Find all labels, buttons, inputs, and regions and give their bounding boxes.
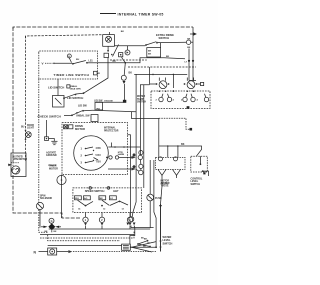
wire: diagonal to wash light box: [113, 45, 119, 57]
junction: black diamond with arrows: [41, 223, 61, 232]
svg-text:SOLENOID: SOLENOID: [40, 198, 52, 200]
svg-text:4 BK: 4 BK: [96, 147, 102, 150]
wire: outer border right (x=193 down to valve): [192, 27, 194, 81]
wires: fan from plug to water level switch: [132, 239, 157, 253]
svg-text:TIMER LINE SWITCH: TIMER LINE SWITCH: [54, 73, 90, 77]
node: boxed M top: [104, 53, 109, 57]
wire: x130 vertical: [128, 135, 131, 217]
valve solenoid 4: [191, 90, 195, 101]
wire: outer border left down to pump: [12, 27, 14, 166]
svg-text:WH: WH: [75, 198, 79, 200]
svg-text:SWITCH: SWITCH: [159, 36, 170, 40]
wash light box: [103, 31, 125, 52]
motor dashed box: [62, 123, 128, 175]
speed switch contacts group 1: [75, 196, 94, 211]
wire: water level right vertical: [155, 204, 161, 252]
svg-text:SPIN: SPIN: [40, 196, 46, 198]
svg-text:INTERNAL TIMER SW-05: INTERNAL TIMER SW-05: [118, 12, 164, 16]
connector row y157: circles and arrow: [106, 155, 143, 159]
svg-text:V: V: [42, 62, 44, 66]
wire: console border B2 left: [25, 36, 27, 162]
wire: diagonal from square to junction: [122, 57, 126, 63]
node: line feed arrow: [190, 33, 196, 35]
wire: bottom bus y234.5: [40, 234, 134, 236]
svg-text:18GA GRN: 18GA GRN: [70, 87, 82, 90]
node: boxed H S terminals: [64, 125, 68, 129]
svg-text:WATER: WATER: [137, 95, 145, 98]
svg-text:LID SWITCH: LID SWITCH: [67, 96, 83, 100]
wire: diagonal from lid switch up to boxed M: [84, 58, 108, 93]
wire: console border B2 top: [26, 35, 103, 38]
wire: vertical BK drop from indicator: [188, 49, 190, 81]
svg-text:MOTOR: MOTOR: [49, 167, 58, 170]
pressure switch contacts: [137, 238, 151, 249]
water valve dashed box: [151, 91, 210, 109]
svg-text:A: A: [68, 54, 70, 58]
wire: right column drop x140: [140, 85, 149, 155]
svg-text:UNBAL SW: UNBAL SW: [76, 114, 90, 117]
node: connector circle on drop wire: [121, 63, 126, 100]
lamp: door light: [25, 130, 32, 141]
wire: feed bus y146 to temp switch: [159, 146, 202, 156]
junction cluster: diamonds and circles mid-right: [132, 151, 143, 169]
wire: valve feed bus: [129, 72, 188, 76]
svg-text:AG: AG: [84, 197, 88, 200]
svg-text:CHECK SWITCH: CHECK SWITCH: [38, 114, 61, 118]
timer motor circle: [57, 175, 66, 219]
svg-text:MOTOR: MOTOR: [75, 127, 85, 131]
motor contact 1: [81, 147, 94, 151]
lid switch plunger box: [95, 102, 103, 110]
svg-text:PK: PK: [143, 246, 146, 248]
svg-text:SWITCH: SWITCH: [137, 102, 146, 104]
spin solenoid circle: [36, 202, 43, 227]
switch: lid sw / unbalance sw second row: [64, 110, 93, 116]
wire: x154 drop to water level: [154, 160, 156, 247]
node: boxed M terminal at timer box right: [94, 71, 98, 75]
svg-text:BK: BK: [129, 72, 133, 75]
wire: motor to connectors row1: [108, 143, 140, 148]
wire: x149 vertical top: [149, 67, 151, 85]
speed switch contacts group 2: [99, 196, 128, 211]
connector row y169: arrow and circle: [108, 168, 143, 175]
svg-text:BK: BK: [97, 108, 101, 111]
wire: row to right with BK label: [93, 108, 137, 112]
pump motor circle with spiral: [12, 166, 20, 174]
speed switch dashed box: [73, 188, 142, 213]
svg-text:LIGHT: LIGHT: [27, 128, 34, 130]
timer line switch: terminal V: [42, 62, 55, 66]
svg-text:LS1: LS1: [89, 61, 94, 63]
lamp: extra rinse indicator: [186, 38, 193, 49]
timer internal box B3: [39, 51, 98, 79]
svg-text:AGIT: AGIT: [113, 190, 119, 193]
node: circled 1 below speed box: [83, 213, 88, 230]
svg-text:5 BU: 5 BU: [96, 155, 102, 157]
wire: neutral bus y245.4: [48, 244, 122, 246]
node: junction on valve box bottom: [187, 106, 190, 109]
wire: outer cabinet border top: [13, 27, 193, 29]
switch: lid switch blade: [58, 79, 84, 99]
node: circled 3 below speed box: [127, 213, 132, 230]
svg-text:LID SWITCH: LID SWITCH: [48, 86, 64, 90]
svg-text:SWITCH: SWITCH: [163, 242, 173, 245]
ground symbol: [49, 139, 58, 145]
wire: outer border left below pump: [13, 175, 81, 218]
wire: dashed corner y240.8: [48, 235, 120, 241]
node: circled G bottom junction: [49, 218, 54, 223]
lid switch plunger box: [53, 96, 65, 108]
fuse: [147, 160, 170, 228]
svg-text:HARN: HARN: [118, 153, 125, 156]
wire: dashed harness to temp area: [159, 118, 190, 129]
wire: bottom bus y229: [49, 228, 151, 230]
wire: x136 long vertical: [132, 74, 136, 216]
wire: relay drop to water level: [161, 175, 163, 251]
temp switch box: [191, 156, 209, 176]
svg-text:PROTECTOR: PROTECTOR: [104, 130, 119, 132]
switch: extra rinse blade: [145, 42, 186, 46]
wire: vertical x143.8: [143, 85, 145, 188]
water level switch assembly: [126, 217, 153, 244]
svg-text:ME: ME: [99, 198, 103, 200]
neutral interference filter: [39, 248, 158, 255]
water pump box: [8, 153, 27, 177]
wire: lid switch lower wire: [94, 99, 159, 146]
svg-text:BK: BK: [187, 38, 191, 40]
svg-text:BK: BK: [181, 143, 185, 146]
svg-text:BK: BK: [148, 54, 152, 56]
node: small boxed terminal right: [198, 82, 204, 85]
wire: drop to relay coil: [172, 74, 174, 88]
check switch actuator box: [91, 115, 98, 122]
switch: timer line switch blade: [55, 59, 98, 65]
node: circled 2 below speed box: [99, 213, 104, 230]
wire: dashed left drop to bottom corner: [39, 210, 48, 233]
label: speed switch: [89, 187, 92, 190]
svg-text:GROUND: GROUND: [46, 154, 57, 157]
motor contact 3: [81, 161, 94, 165]
svg-text:BK: BK: [113, 61, 117, 63]
svg-text:INTERNAL: INTERNAL: [104, 127, 116, 130]
svg-text:SWITCH: SWITCH: [191, 183, 201, 186]
drive motor circle: [74, 136, 109, 171]
valve solenoid 3: [183, 90, 188, 101]
svg-text:T BU: T BU: [96, 162, 102, 164]
node: circled A above timer line switch: [67, 54, 71, 63]
valve solenoid 1: [159, 90, 164, 101]
svg-text:BK: BK: [148, 51, 152, 53]
node: square terminal: [119, 53, 123, 57]
svg-text:AGITATE/: AGITATE/: [13, 156, 24, 159]
svg-text:SPIN MOTOR: SPIN MOTOR: [13, 159, 28, 161]
power plug: [122, 244, 132, 250]
svg-text:BK: BK: [121, 31, 125, 33]
wire: extra rinse feed: [114, 45, 145, 47]
wire: long vertical from timer box to spin solenoid: [38, 79, 40, 203]
capacitor: square with dot: [45, 120, 49, 140]
svg-text:LID SW: LID SW: [78, 104, 87, 107]
legend: internal timer line: [100, 12, 164, 16]
wire: dashed bus y238: [40, 231, 134, 238]
wire: timer output zigzag to right column: [98, 56, 195, 64]
motor relay dashed box: [156, 157, 186, 178]
console connector box: [147, 43, 161, 57]
motor contact 2: [81, 154, 94, 158]
valve solenoid 5: [204, 94, 208, 102]
wire: dashed console line: [110, 59, 147, 61]
node: circled connector F: [125, 46, 130, 55]
wire: dashed harness line: [128, 66, 196, 68]
svg-text:LO: LO: [110, 198, 113, 200]
svg-text:BU: BU: [141, 238, 145, 240]
valve solenoid 2: [165, 90, 172, 101]
relay coil left: [150, 78, 169, 89]
svg-text:18GAGE: 18GAGE: [104, 99, 113, 102]
svg-text:SPEED SWITCH: SPEED SWITCH: [85, 189, 105, 193]
svg-text:BU: BU: [76, 59, 80, 61]
wire: feeds into relay box: [158, 146, 160, 157]
svg-text:G: G: [51, 220, 53, 223]
svg-text:BK: BK: [166, 56, 170, 58]
relay coil right: [184, 78, 198, 89]
svg-text:BU: BU: [21, 127, 25, 129]
